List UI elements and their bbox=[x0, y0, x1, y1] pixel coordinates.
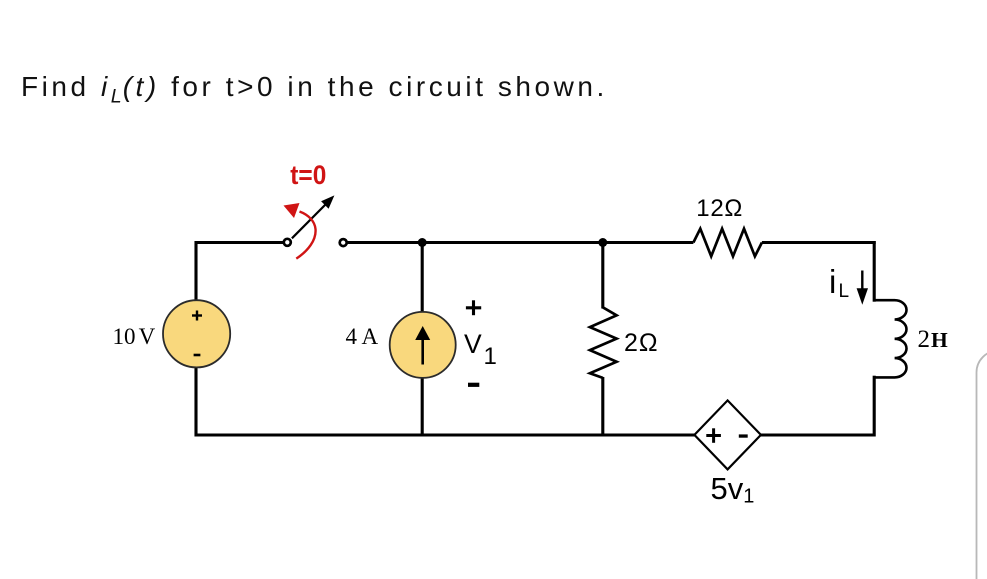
switch blade arrowhead bbox=[321, 195, 334, 208]
panel corner border bottom-right bbox=[977, 351, 987, 579]
wire right vertical lower bbox=[873, 376, 876, 437]
switch blade bbox=[292, 205, 326, 239]
switch terminal circle left bbox=[284, 239, 291, 246]
svg-text:t=0: t=0 bbox=[290, 160, 326, 190]
label V1 plus bbox=[466, 300, 481, 315]
voltage source minus sign bbox=[194, 354, 201, 357]
svg-text:L: L bbox=[839, 281, 850, 302]
resistor R2 2ohm zigzag bbox=[590, 307, 617, 378]
wire top-middle segment bbox=[347, 241, 693, 244]
voltage source plus sign bbox=[192, 311, 202, 321]
wire 2ohm vertical lower bbox=[601, 377, 604, 435]
svg-text:V: V bbox=[464, 329, 482, 359]
arrow iL stem bbox=[861, 271, 863, 292]
dependent source plus bbox=[706, 428, 721, 443]
svg-text:10V: 10V bbox=[113, 324, 156, 349]
svg-text:2Ω: 2Ω bbox=[624, 329, 659, 357]
svg-text:4 A: 4 A bbox=[346, 324, 379, 349]
inductor L1 2H bbox=[874, 300, 906, 377]
svg-text:2H: 2H bbox=[918, 326, 949, 353]
wire top-right segment bbox=[762, 241, 876, 244]
wire bottom segment bbox=[196, 433, 874, 436]
arrow iL head bbox=[857, 288, 868, 305]
wire 2ohm vertical upper bbox=[601, 243, 604, 309]
dependent source D1 diamond bbox=[694, 400, 761, 469]
svg-text:12Ω: 12Ω bbox=[696, 195, 743, 222]
node junction dot B bbox=[598, 238, 607, 247]
wire left vertical upper bbox=[194, 241, 197, 301]
current source IS1 4A circle bbox=[390, 312, 456, 378]
wire left vertical lower bbox=[194, 367, 197, 437]
wire right vertical upper bbox=[873, 241, 876, 302]
voltage source VS1 10V circle bbox=[163, 300, 230, 367]
svg-text:i: i bbox=[829, 263, 836, 300]
svg-text:1: 1 bbox=[484, 343, 497, 370]
node junction dot A bbox=[418, 238, 427, 247]
wire top-left segment bbox=[196, 241, 283, 244]
wire 4A vertical lower bbox=[421, 377, 424, 435]
switch red arc bbox=[296, 212, 315, 259]
wire 4A vertical upper bbox=[421, 243, 424, 314]
switch terminal circle right bbox=[340, 239, 347, 246]
resistor R1 12ohm zigzag bbox=[693, 229, 762, 257]
label V1 minus bbox=[468, 383, 479, 387]
svg-text:5v1: 5v1 bbox=[711, 471, 755, 508]
dependent source minus bbox=[739, 434, 748, 437]
title text bbox=[21, 73, 608, 107]
switch red arrowhead bbox=[284, 203, 300, 218]
current source arrowhead bbox=[415, 326, 430, 340]
current source arrow stem bbox=[421, 339, 424, 365]
